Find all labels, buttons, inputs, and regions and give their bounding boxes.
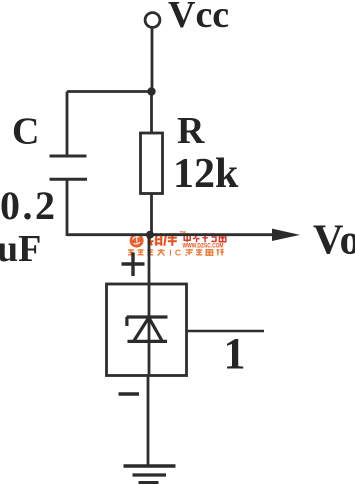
ground [124,466,176,483]
wire node down to diode box [148,235,151,284]
svg-text:C: C [12,111,39,153]
watermark text 维库 [147,233,178,246]
svg-text:Vo: Vo [313,218,355,264]
resistor R body [141,133,163,194]
watermark logo disc [130,234,144,248]
wire box bottom to ground [147,376,150,467]
svg-text:12k: 12k [173,151,239,197]
svg-text:R: R [177,110,205,152]
watermark text 电子市场网 [184,233,226,242]
watermark bottom row [128,249,165,256]
svg-text:WWW.DZSC.COM: WWW.DZSC.COM [183,244,224,250]
wire capacitor branch lower [66,179,69,236]
Vcc terminal circle [145,13,160,28]
svg-text:IC: IC [169,247,184,257]
wire junction left to capacitor branch [67,90,152,93]
junction dot top [147,87,155,95]
wire junction to resistor top [150,92,153,133]
svg-text:1: 1 [224,329,246,378]
plus polarity mark [122,253,145,277]
arrowhead Vo [272,229,300,241]
svg-text:Vcc: Vcc [168,0,229,36]
wire capacitor branch upper [66,92,69,157]
diode box U1 [107,284,187,376]
wire output node horizontal to arrow [67,233,274,236]
wire through diode box [148,284,151,376]
wire box right tap to pin 1 [187,330,265,333]
capacitor C top plate [50,155,87,158]
minus polarity mark [119,392,140,395]
zener diode D1 [127,317,168,341]
wire Vcc down to junction [151,28,154,93]
junction dot output node [146,231,154,239]
svg-text:0.2: 0.2 [0,183,58,228]
capacitor C bottom plate [50,178,88,181]
wire resistor bottom to output node [150,194,153,236]
svg-text:uF: uF [0,228,41,270]
